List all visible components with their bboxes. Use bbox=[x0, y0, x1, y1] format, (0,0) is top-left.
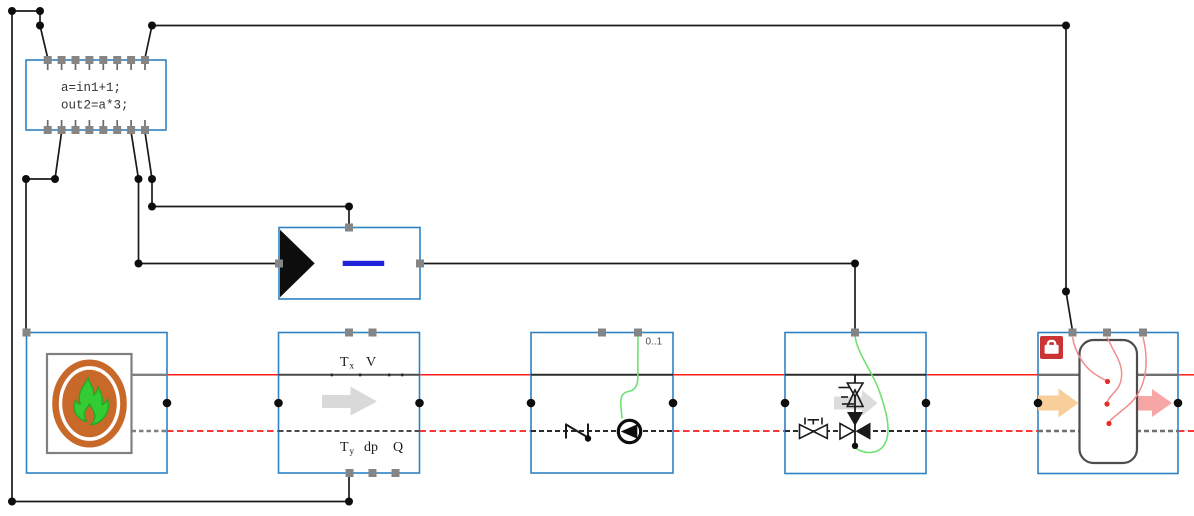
svg-text:dp: dp bbox=[364, 440, 378, 455]
boiler block bbox=[27, 333, 168, 474]
boiler pipe stubs bbox=[132, 375, 168, 431]
svg-text:T: T bbox=[340, 355, 349, 370]
wire bbox=[145, 26, 152, 59]
boiler outlet node bbox=[163, 399, 172, 408]
valve flow arrow bbox=[834, 390, 878, 416]
svg-text:out2=a*3;: out2=a*3; bbox=[61, 99, 129, 113]
boiler top-left port bbox=[23, 329, 31, 337]
junction bbox=[22, 175, 30, 183]
junction bbox=[135, 175, 143, 183]
boiler flame bbox=[74, 378, 108, 425]
tank vessel bbox=[1080, 340, 1138, 463]
valve block pipe lines bbox=[785, 375, 926, 431]
svg-text:0..1: 0..1 bbox=[646, 337, 663, 348]
junction bbox=[1062, 22, 1070, 30]
inflow arrow (orange) bbox=[1038, 389, 1079, 418]
junction bbox=[148, 203, 156, 211]
wire bbox=[854, 264, 856, 332]
pump block pipe lines bbox=[531, 375, 673, 431]
red supply line net bbox=[167, 374, 1194, 376]
valve block edge nodes bbox=[781, 399, 931, 408]
storage tank top ports bbox=[1069, 329, 1148, 337]
valve block bbox=[785, 333, 926, 474]
sensor curve 1 bbox=[1073, 337, 1108, 381]
junction bbox=[36, 7, 44, 15]
heat meter ports bbox=[345, 329, 400, 478]
junction bbox=[51, 175, 59, 183]
check valve bbox=[566, 424, 588, 439]
pump block bbox=[531, 333, 673, 474]
heat meter flow arrow bbox=[322, 387, 377, 416]
svg-text:a=in1+1;: a=in1+1; bbox=[61, 81, 121, 95]
junction bbox=[135, 260, 143, 268]
wire bbox=[1065, 26, 1067, 292]
svg-text:V: V bbox=[366, 355, 376, 370]
expression block top ports bbox=[44, 56, 149, 70]
svg-text:T: T bbox=[340, 440, 349, 455]
storage tank pipe stubs bbox=[1038, 375, 1178, 431]
pump block top ports bbox=[598, 329, 642, 337]
storage tank block bbox=[1038, 333, 1178, 474]
wire bbox=[145, 132, 152, 179]
junction bbox=[8, 498, 16, 506]
hand valve bbox=[800, 418, 828, 439]
gain block ports bbox=[275, 224, 424, 268]
lock badge bbox=[1040, 336, 1063, 359]
wire bbox=[12, 501, 349, 503]
valve block top port bbox=[851, 329, 859, 337]
wire bbox=[131, 132, 138, 179]
wire bbox=[138, 179, 140, 264]
wire bbox=[151, 179, 153, 207]
expression block bottom ports bbox=[44, 120, 149, 134]
junction bbox=[851, 260, 859, 268]
svg-text:x: x bbox=[350, 361, 355, 371]
heat meter edge nodes bbox=[274, 399, 424, 408]
heat meter block bbox=[279, 333, 420, 474]
junction bbox=[36, 22, 44, 30]
gain block bbox=[279, 228, 420, 300]
junction bbox=[148, 175, 156, 183]
pump block edge nodes bbox=[527, 399, 678, 408]
svg-text:Q: Q bbox=[393, 440, 403, 455]
heat meter pipe lines bbox=[279, 375, 420, 431]
boiler flame rings bbox=[56, 363, 124, 444]
svg-text:y: y bbox=[350, 446, 355, 456]
junction bbox=[345, 203, 353, 211]
wire bbox=[420, 263, 855, 265]
boiler icon frame bbox=[47, 354, 132, 453]
wire bbox=[348, 473, 350, 502]
junction bbox=[148, 22, 156, 30]
wire bbox=[25, 179, 27, 330]
wire bbox=[39, 11, 41, 26]
junction bbox=[8, 7, 16, 15]
control signal wire (green) bbox=[621, 336, 638, 419]
wire bbox=[40, 26, 48, 59]
outflow arrow (pink) bbox=[1137, 389, 1172, 417]
heat meter labels Tx V bbox=[340, 355, 403, 456]
wire bbox=[139, 263, 280, 265]
wire bbox=[12, 10, 40, 12]
wire bbox=[55, 132, 62, 179]
junction bbox=[1062, 288, 1070, 296]
junction bbox=[345, 498, 353, 506]
wire bbox=[1066, 292, 1073, 332]
heat meter sensor ticks bbox=[331, 374, 404, 377]
wire bbox=[152, 206, 349, 208]
expression block a=in1+1 bbox=[26, 60, 166, 130]
sensor curve 2 bbox=[1107, 337, 1122, 402]
pump symbol bbox=[618, 420, 640, 442]
wire bbox=[11, 11, 13, 502]
control signal wire (green) bbox=[855, 336, 888, 453]
storage tank edge nodes bbox=[1034, 399, 1183, 408]
wire bbox=[152, 25, 1066, 27]
red return line net (dashed) bbox=[167, 430, 1194, 432]
wire bbox=[348, 207, 350, 228]
wire bbox=[26, 178, 55, 180]
three-way valve bbox=[839, 375, 871, 449]
sensor curve 3 bbox=[1110, 337, 1146, 421]
